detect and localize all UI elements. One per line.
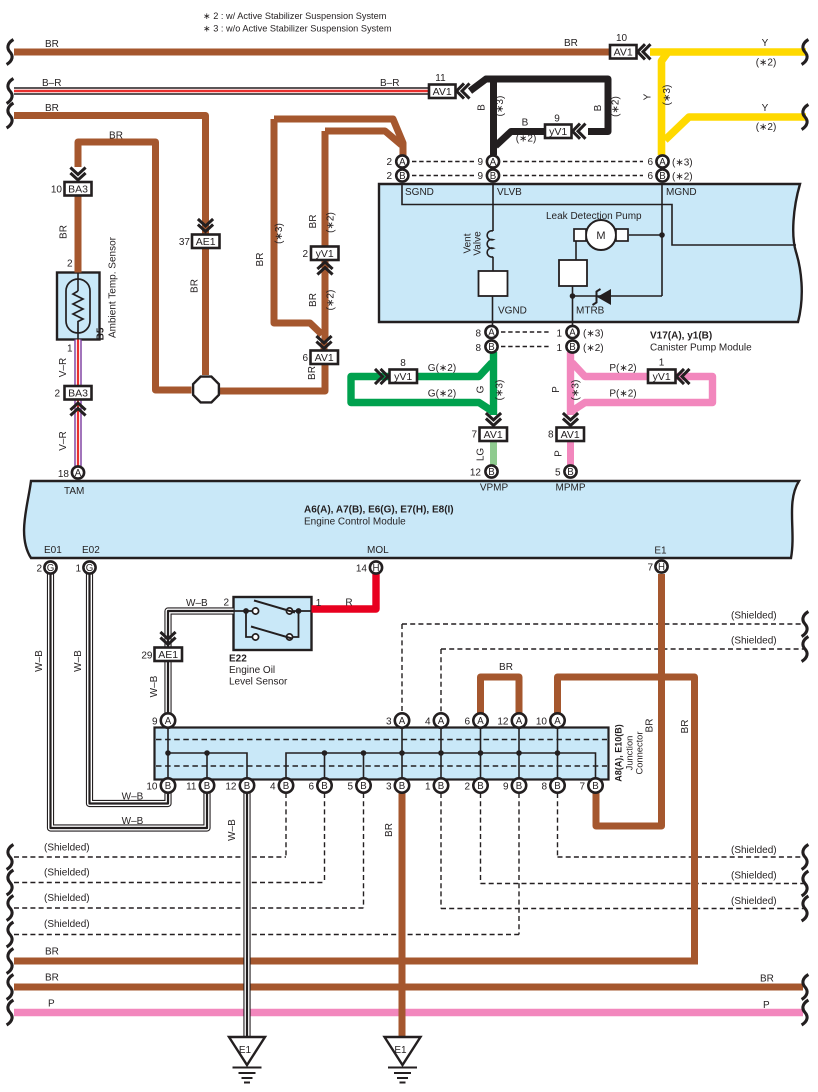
shielded wire right bus 5 <box>441 908 806 910</box>
svg-text:BR: BR <box>307 366 318 380</box>
wire W-B from 12B down to ground E1 (black outer) <box>243 793 250 1037</box>
brace P bottom left <box>7 1000 14 1025</box>
svg-text:W–B: W–B <box>73 650 84 672</box>
variant link 2A-9A <box>412 161 474 163</box>
node 12B VPMP <box>485 465 497 477</box>
svg-text:B: B <box>488 342 494 353</box>
node 8A canister bottom <box>485 326 497 338</box>
svg-text:(Shielded): (Shielded) <box>44 893 90 904</box>
svg-text:BR: BR <box>45 39 59 50</box>
svg-text:A: A <box>399 716 406 727</box>
svg-text:(Shielded): (Shielded) <box>731 611 777 622</box>
svg-text:V–R: V–R <box>58 358 69 377</box>
brace BR bus1 left <box>7 40 14 65</box>
svg-text:A: A <box>490 157 497 168</box>
B5 sensor lead bottom <box>77 333 79 340</box>
svg-text:(∗3): (∗3) <box>662 85 673 106</box>
junction bus segment 1 <box>168 753 247 778</box>
svg-text:B: B <box>438 781 444 792</box>
brace BR bus2 left <box>7 103 14 128</box>
wire B-R bus (red stripe) <box>14 90 429 92</box>
svg-text:Leak Detection Pump: Leak Detection Pump <box>546 211 642 222</box>
svg-text:H: H <box>658 562 665 573</box>
node 3B junction <box>395 778 409 792</box>
svg-text:Ambient Temp. Sensor: Ambient Temp. Sensor <box>108 236 119 338</box>
svg-text:12: 12 <box>470 468 482 479</box>
node 6A junction <box>473 713 487 727</box>
svg-text:LG: LG <box>476 448 487 462</box>
svg-text:B: B <box>659 171 665 182</box>
svg-text:Engine Control Module: Engine Control Module <box>304 517 406 528</box>
wire V-R lower (white core) <box>76 400 81 466</box>
svg-text:1: 1 <box>556 343 562 354</box>
node 1A canister bottom <box>566 326 578 338</box>
brace P bottom right <box>802 1000 809 1025</box>
svg-text:9: 9 <box>477 171 483 182</box>
svg-text:6: 6 <box>647 157 653 168</box>
brace shielded right 1 <box>802 612 809 637</box>
svg-text:3: 3 <box>386 717 392 728</box>
variant link 8B-1B <box>501 346 551 348</box>
svg-text:V17(A), y1(B): V17(A), y1(B) <box>650 331 712 342</box>
svg-text:6: 6 <box>308 782 314 793</box>
node 9A canister <box>487 155 499 167</box>
node 9A junction <box>161 713 175 727</box>
wire G (*2) loop via yV1-8 <box>351 363 492 412</box>
svg-text:A: A <box>165 716 172 727</box>
svg-text:9: 9 <box>554 114 560 125</box>
svg-text:B: B <box>592 781 598 792</box>
svg-text:SGND: SGND <box>405 187 434 198</box>
shielded wire left bus 1 <box>14 856 286 858</box>
connector AV1 pin 6 <box>316 336 331 349</box>
shielded drop 6B <box>324 793 326 883</box>
svg-text:B: B <box>477 104 488 111</box>
svg-text:11: 11 <box>186 782 197 793</box>
svg-text:1: 1 <box>659 358 665 369</box>
svg-text:BR: BR <box>499 662 513 673</box>
svg-text:6: 6 <box>464 717 470 728</box>
svg-text:G: G <box>86 563 94 574</box>
brace shielded right 2 <box>802 637 809 662</box>
connector AV1 pin 11 <box>429 85 456 99</box>
shielded wire left bus 2 <box>14 882 325 884</box>
svg-text:yV1: yV1 <box>316 248 334 260</box>
junction wire 6B <box>324 753 326 784</box>
node 5B junction <box>356 778 370 792</box>
svg-text:A: A <box>399 157 406 168</box>
brace shielded left 1 <box>7 845 14 870</box>
wire V-R (white core) <box>76 340 81 387</box>
connector BA3 pin 10 <box>70 168 85 181</box>
shielded drop 8B <box>557 793 559 857</box>
svg-text:E22: E22 <box>229 654 247 665</box>
junction dots on bus <box>165 750 171 756</box>
B5 sensor capsule <box>66 279 90 333</box>
brace Y top right <box>802 40 809 65</box>
node 8B junction <box>550 778 564 792</box>
svg-text:2: 2 <box>302 249 308 260</box>
variant link 8A-1A <box>501 331 551 333</box>
svg-text:9: 9 <box>503 782 509 793</box>
svg-text:(Shielded): (Shielded) <box>44 919 90 930</box>
svg-text:(Shielded): (Shielded) <box>731 845 777 856</box>
svg-text:G: G <box>476 385 487 393</box>
svg-text:A: A <box>488 328 495 339</box>
svg-text:(Shielded): (Shielded) <box>44 868 90 879</box>
svg-text:TAM: TAM <box>64 486 84 497</box>
wire BR from 6A up over to 12A <box>481 677 520 713</box>
wire BR below AE1-37 to octagon <box>202 248 209 376</box>
svg-text:11: 11 <box>435 73 446 84</box>
wire V-R BA3-2 to 18A (violet outer) <box>74 400 81 466</box>
svg-text:BA3: BA3 <box>68 387 88 399</box>
svg-text:Y: Y <box>762 38 769 49</box>
svg-text:B5: B5 <box>96 327 107 340</box>
svg-text:10: 10 <box>146 782 158 793</box>
svg-text:W–B: W–B <box>122 816 144 827</box>
svg-text:8: 8 <box>548 430 554 441</box>
svg-text:10: 10 <box>536 717 548 728</box>
svg-text:(∗2): (∗2) <box>583 343 604 354</box>
brace shielded left 3 <box>7 896 14 921</box>
svg-text:VGND: VGND <box>498 306 527 317</box>
svg-text:B: B <box>244 781 250 792</box>
wire BR from BA3-10 to sensor B5 <box>75 196 82 273</box>
node 7B junction <box>588 778 602 792</box>
node 8B canister bottom <box>485 340 497 352</box>
wire BR u-turn B5 chain to octagon <box>78 142 192 390</box>
E22 bottom switch contacts <box>252 634 258 640</box>
svg-text:(∗3): (∗3) <box>672 158 693 169</box>
svg-text:Junction: Junction <box>625 736 635 771</box>
wire P bus bottom <box>14 1009 803 1016</box>
wire W-B 1G chain (white core) <box>90 574 169 804</box>
wire W-B E22 chain (black stripe) <box>168 611 234 714</box>
wire W-B 2G chain (black stripe) <box>51 574 208 828</box>
svg-text:AE1: AE1 <box>196 236 216 248</box>
svg-text:A: A <box>554 716 561 727</box>
svg-text:(∗3): (∗3) <box>495 96 506 117</box>
node 2B canister <box>396 169 408 181</box>
svg-text:2: 2 <box>223 598 229 609</box>
canister pump module box V17(A),y1(B) <box>379 184 802 322</box>
svg-text:7: 7 <box>579 782 585 793</box>
shielded wire left bus 4 <box>14 934 519 936</box>
wire W-B from E02 1G to 10B (black outer) <box>90 574 169 804</box>
connector yV1 pin 1 <box>648 370 676 384</box>
svg-text:B: B <box>593 104 604 111</box>
svg-text:G(∗2): G(∗2) <box>428 389 456 400</box>
svg-text:G: G <box>47 563 55 574</box>
svg-text:1: 1 <box>67 344 73 355</box>
svg-text:B: B <box>321 781 327 792</box>
svg-text:2: 2 <box>464 782 470 793</box>
svg-text:P: P <box>551 386 562 393</box>
svg-text:W–B: W–B <box>122 792 144 803</box>
svg-text:AV1: AV1 <box>484 429 503 441</box>
ground E1 right <box>385 1037 421 1083</box>
svg-text:Level Sensor: Level Sensor <box>229 677 288 688</box>
wire V-R sensor to BA3-2 (violet outer) <box>74 340 81 387</box>
wire BR (*3) branch to 2A <box>274 119 403 157</box>
connector BA3 pin 2 <box>65 386 92 400</box>
oil level sensor E22 internals: top contact line <box>234 610 253 612</box>
junction through wire 6A-2B <box>480 715 482 784</box>
svg-text:B–R: B–R <box>42 78 61 89</box>
svg-text:18: 18 <box>58 469 70 480</box>
svg-text:2: 2 <box>54 389 60 400</box>
svg-text:MPMP: MPMP <box>556 483 586 494</box>
svg-text:Engine Oil: Engine Oil <box>229 665 275 676</box>
svg-text:yV1: yV1 <box>653 371 671 383</box>
wire B (*2) from yV1-9 <box>496 132 546 147</box>
connector AE1 pin 29 <box>160 632 175 645</box>
svg-text:VPMP: VPMP <box>480 483 509 494</box>
svg-text:1: 1 <box>425 782 431 793</box>
wire BR from 3B down to ground E1 <box>399 793 406 1037</box>
svg-text:W–B: W–B <box>149 675 160 697</box>
node 10B junction <box>161 778 175 792</box>
svg-text:R: R <box>345 598 352 609</box>
svg-text:A: A <box>659 157 666 168</box>
svg-text:9: 9 <box>152 717 158 728</box>
wire Y (*2) branch to right <box>665 117 806 140</box>
node 11B junction <box>200 778 214 792</box>
ground E1 left <box>229 1037 265 1083</box>
svg-text:(∗3): (∗3) <box>495 380 506 401</box>
svg-text:yV1: yV1 <box>394 371 412 383</box>
svg-text:W–B: W–B <box>186 598 208 609</box>
wire BR from 10A over and down to BR bus <box>558 677 695 961</box>
shielded riser 3A <box>401 624 403 713</box>
svg-text:Y: Y <box>643 93 654 100</box>
wire W-B from E01 2G to 11B (black outer) <box>51 574 208 828</box>
wire B loop top from AV1-11 <box>470 79 608 132</box>
node 12B junction <box>240 778 254 792</box>
node 4A junction <box>434 713 448 727</box>
node 9B junction <box>512 778 526 792</box>
svg-text:2: 2 <box>386 157 392 168</box>
svg-text:1: 1 <box>556 329 562 340</box>
wire B-R bus (black outer) <box>14 87 429 94</box>
svg-text:(Shielded): (Shielded) <box>731 871 777 882</box>
wire P vertical 1B to AV1-8 <box>567 352 574 415</box>
svg-text:7: 7 <box>647 563 653 574</box>
wire W-B 2G chain (white core) <box>51 574 208 828</box>
svg-text:A: A <box>438 716 445 727</box>
shielded wire right bus 2 <box>441 648 806 650</box>
svg-text:B: B <box>360 781 366 792</box>
node 9B canister <box>487 169 499 181</box>
svg-text:AV1: AV1 <box>614 46 633 58</box>
svg-text:(∗2): (∗2) <box>672 172 693 183</box>
octagon junction splice <box>193 377 219 403</box>
svg-text:P: P <box>763 1000 770 1011</box>
shielded drop 1B <box>440 793 442 909</box>
connector AV1 pin 8 <box>563 413 578 426</box>
svg-text:P: P <box>554 450 565 457</box>
wire MTRB to diode to MGND <box>573 295 663 297</box>
motor brush left <box>574 229 586 241</box>
svg-text:BR: BR <box>760 974 774 985</box>
wire W-B 1G chain (black stripe) <box>90 574 169 804</box>
brace B-R left <box>7 79 14 104</box>
svg-text:BR: BR <box>384 823 395 837</box>
shielded wire right bus 4 <box>481 883 807 885</box>
svg-text:MTRB: MTRB <box>576 306 605 317</box>
svg-text:(∗3): (∗3) <box>583 329 604 340</box>
wire W-B 12B drop (white core) <box>245 793 250 1037</box>
svg-text:BR: BR <box>308 293 319 307</box>
svg-text:(Shielded): (Shielded) <box>731 636 777 647</box>
variant link 9A-6A <box>503 161 643 163</box>
shielded wire right bus 1 <box>402 623 806 625</box>
svg-text:BR: BR <box>308 215 319 229</box>
vent valve coil <box>487 231 493 257</box>
svg-text:B: B <box>488 467 494 478</box>
svg-text:(∗2): (∗2) <box>756 58 777 69</box>
svg-text:B: B <box>490 171 496 182</box>
svg-text:10: 10 <box>616 33 628 44</box>
svg-text:W–B: W–B <box>34 650 45 672</box>
wire W-B E22 chain (white core) <box>168 611 234 714</box>
svg-text:BR: BR <box>680 720 691 734</box>
shielded wire right bus 3 <box>558 856 807 858</box>
svg-text:BR: BR <box>45 103 59 114</box>
wire BR (*3) vertical <box>274 119 322 335</box>
svg-text:BR: BR <box>45 973 59 984</box>
wire MTRB internal <box>572 286 574 325</box>
svg-text:4: 4 <box>270 782 276 793</box>
shielded riser 4A <box>440 649 442 713</box>
brace shielded right 4 <box>802 871 809 896</box>
wire P (*2) loop via yV1-1 <box>572 363 713 412</box>
svg-text:(∗2): (∗2) <box>326 290 337 311</box>
variant link 2B-9B <box>412 175 474 177</box>
svg-text:37: 37 <box>179 237 191 248</box>
svg-text:1: 1 <box>75 564 81 575</box>
junction wire 5B <box>363 753 365 784</box>
connector yV1 pin 2 <box>311 247 339 261</box>
svg-text:W–B: W–B <box>227 819 238 841</box>
junction bus segment 2 <box>286 753 596 778</box>
E22 junction dots <box>243 608 249 614</box>
connector AV1 pin 7 <box>486 413 501 426</box>
brace shielded left 2 <box>7 870 14 895</box>
svg-text:BR: BR <box>564 38 578 49</box>
svg-text:BR: BR <box>109 131 123 142</box>
svg-text:2: 2 <box>386 171 392 182</box>
svg-text:E1: E1 <box>239 1045 252 1056</box>
brace BR bottom2 right <box>802 975 809 1000</box>
svg-text:P(∗2): P(∗2) <box>609 389 636 400</box>
junction through wire 4A-1B <box>440 715 442 784</box>
node 6B canister <box>656 169 668 181</box>
svg-text:2: 2 <box>67 259 73 270</box>
node 5B MPMP <box>564 465 576 477</box>
svg-text:(∗3): (∗3) <box>571 380 582 401</box>
wire BR top bus 1 <box>14 49 610 56</box>
svg-text:∗ 2 : w/ Active Stabilizer Sus: ∗ 2 : w/ Active Stabilizer Suspension Sy… <box>203 11 387 21</box>
svg-text:A6(A), A7(B), E6(G), E7(H), E8: A6(A), A7(B), E6(G), E7(H), E8(I) <box>304 505 454 516</box>
svg-text:B: B <box>399 171 405 182</box>
node 1B junction <box>434 778 448 792</box>
wire BR top bus 2 to AE1-37 <box>14 116 206 236</box>
svg-text:B: B <box>477 781 483 792</box>
svg-text:H: H <box>373 563 380 574</box>
svg-text:BR: BR <box>255 253 266 267</box>
svg-text:(∗3): (∗3) <box>274 223 285 244</box>
node 4B junction <box>279 778 293 792</box>
svg-text:BR: BR <box>645 719 656 733</box>
variant link 9B-6B <box>503 175 643 177</box>
svg-text:B: B <box>204 781 210 792</box>
junction wire 11B <box>206 753 208 784</box>
svg-text:A8(A), E10(B): A8(A), E10(B) <box>614 724 624 782</box>
svg-text:Y: Y <box>762 103 769 114</box>
svg-text:(∗2): (∗2) <box>516 134 537 145</box>
svg-text:M: M <box>596 230 605 242</box>
svg-text:B: B <box>567 467 573 478</box>
wire VLVB internal upper <box>492 184 494 231</box>
svg-text:B: B <box>165 781 171 792</box>
svg-text:G(∗2): G(∗2) <box>428 363 456 374</box>
junction through wire 9A-10B <box>167 715 169 784</box>
shielded drop 2B <box>480 793 482 884</box>
node 7H E1 <box>655 560 667 572</box>
node 2A canister <box>396 155 408 167</box>
svg-text:AV1: AV1 <box>433 86 452 98</box>
E22 side links <box>246 611 252 637</box>
engine oil level sensor box E22 <box>234 597 312 650</box>
svg-text:7: 7 <box>471 430 477 441</box>
wire BR bus bottom 1 <box>14 958 698 965</box>
engine control module box <box>24 481 799 558</box>
shielded drop 5B <box>363 793 365 908</box>
svg-text:8: 8 <box>475 329 481 340</box>
svg-text:BR: BR <box>59 225 70 239</box>
svg-text:Valve: Valve <box>473 231 484 256</box>
svg-text:1: 1 <box>316 598 322 609</box>
E22 top switch blade <box>254 601 295 613</box>
wire V-R (red stripe) <box>77 340 79 387</box>
shielded drop 9B <box>518 793 520 935</box>
B5 resistor zigzag <box>73 291 83 333</box>
junction through wire 12A-9B <box>518 715 520 784</box>
svg-text:6: 6 <box>302 353 308 364</box>
svg-text:P(∗2): P(∗2) <box>609 363 636 374</box>
svg-text:A: A <box>569 328 576 339</box>
svg-text:29: 29 <box>141 651 153 662</box>
shielded drop 4B <box>285 793 287 857</box>
wire BR bus bottom 2 <box>14 984 803 991</box>
connector AV1 pin 10 <box>610 45 637 59</box>
E22 top switch contacts <box>252 608 258 614</box>
E22 bottom switch blade <box>251 627 292 639</box>
svg-text:5: 5 <box>555 468 561 479</box>
brace Y second right <box>802 105 809 130</box>
junction through wire 3A-3B <box>401 715 403 784</box>
wire motor left to driver <box>575 241 577 260</box>
junction dot MTRB node <box>570 293 576 299</box>
node 3A junction <box>395 713 409 727</box>
wire motor right to MGND <box>629 234 662 236</box>
wire B-R bus (white core) <box>14 89 429 93</box>
svg-text:8: 8 <box>400 358 406 369</box>
connector yV1 pin 8 <box>375 369 388 384</box>
svg-text:9: 9 <box>477 157 483 168</box>
